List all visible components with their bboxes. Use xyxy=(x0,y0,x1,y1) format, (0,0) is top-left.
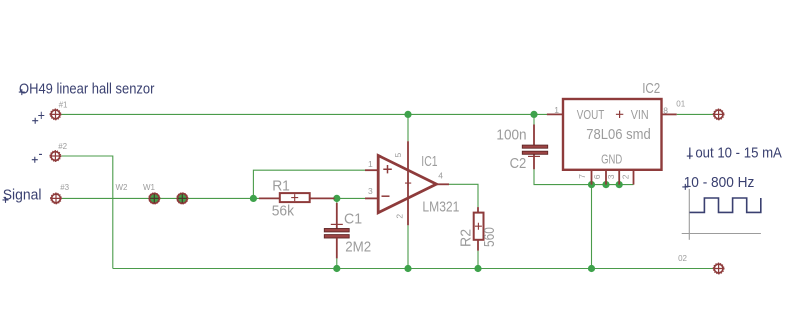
svg-text:560: 560 xyxy=(481,227,497,247)
svg-text:+: + xyxy=(38,107,45,123)
svg-text:-: - xyxy=(39,145,43,161)
svg-text:W1: W1 xyxy=(143,183,156,192)
svg-text:7: 7 xyxy=(577,174,587,179)
svg-text:5: 5 xyxy=(393,153,403,158)
svg-text:01: 01 xyxy=(676,100,685,109)
svg-text:IC2: IC2 xyxy=(642,80,660,97)
svg-text:3: 3 xyxy=(606,174,616,179)
svg-text:#2: #2 xyxy=(58,142,67,151)
svg-text:100n: 100n xyxy=(496,126,526,143)
svg-text:W2: W2 xyxy=(116,183,129,192)
svg-text:02: 02 xyxy=(678,254,687,263)
svg-text:1: 1 xyxy=(368,159,373,169)
svg-text:IC1: IC1 xyxy=(421,153,437,169)
svg-text:R2: R2 xyxy=(458,229,474,247)
svg-text:3: 3 xyxy=(368,186,373,196)
svg-text:C1: C1 xyxy=(344,211,362,227)
svg-text:VIN: VIN xyxy=(631,107,649,122)
svg-text:2M2: 2M2 xyxy=(345,238,371,255)
svg-text:VOUT: VOUT xyxy=(577,109,604,122)
svg-text:LM321: LM321 xyxy=(422,198,459,214)
svg-text:#3: #3 xyxy=(60,183,69,192)
svg-text:8: 8 xyxy=(663,105,668,115)
svg-text:56k: 56k xyxy=(272,203,295,219)
svg-text:GND: GND xyxy=(601,153,622,167)
svg-text:R1: R1 xyxy=(272,178,290,194)
svg-text:2: 2 xyxy=(395,214,405,219)
svg-text:4: 4 xyxy=(438,171,443,181)
svg-text:78L06 smd: 78L06 smd xyxy=(586,126,650,142)
svg-text:OH49 linear hall senzor: OH49 linear hall senzor xyxy=(19,81,155,97)
svg-text:10 - 800 Hz: 10 - 800 Hz xyxy=(684,174,755,190)
svg-text:6: 6 xyxy=(592,174,602,179)
svg-text:1: 1 xyxy=(554,105,559,115)
svg-text:2: 2 xyxy=(620,174,630,179)
svg-text:C2: C2 xyxy=(510,155,527,171)
svg-text:I out 10 - 15 mA: I out 10 - 15 mA xyxy=(688,144,783,161)
svg-text:Signal: Signal xyxy=(3,187,42,203)
svg-text:#1: #1 xyxy=(59,101,68,110)
